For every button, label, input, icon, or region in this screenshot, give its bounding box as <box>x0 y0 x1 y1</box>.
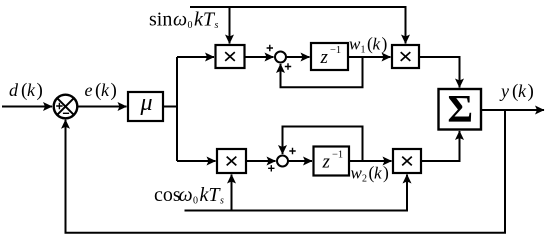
svg-text:μ: μ <box>140 90 153 116</box>
times sign M2 <box>227 157 237 166</box>
wire: summing junction to mu box <box>78 106 127 108</box>
svg-text:cos: cos <box>154 184 181 206</box>
svg-text:): ) <box>111 80 117 101</box>
svg-text:ω: ω <box>173 9 187 31</box>
wire: M2 to adder A2 <box>246 160 276 162</box>
multiplier M3 box <box>392 45 419 68</box>
times sign M3 <box>401 52 411 61</box>
sign plus A1 bottom-right <box>285 63 291 69</box>
svg-text:): ) <box>382 34 388 54</box>
svg-text:0: 0 <box>188 20 193 31</box>
svg-text:1: 1 <box>361 45 366 56</box>
summing junction S1 circle with cross <box>54 95 78 119</box>
sign plus A2 bottom-left <box>268 165 274 171</box>
wire: split to top multiplier M1 <box>177 56 214 58</box>
svg-text:ω: ω <box>179 184 193 206</box>
svg-text:w: w <box>351 164 363 183</box>
wire: sin drop into M1 <box>229 7 231 44</box>
svg-text:kT: kT <box>194 9 216 31</box>
wire: M1 to adder A1 <box>245 56 274 58</box>
sign minus inside S1 <box>63 112 69 114</box>
wire: output feedback to summing junction <box>66 110 506 233</box>
svg-text:s: s <box>220 196 224 207</box>
svg-text:−1: −1 <box>330 45 341 56</box>
svg-text:): ) <box>383 163 389 183</box>
delay z1 box <box>311 43 348 70</box>
svg-text:0: 0 <box>193 196 198 207</box>
mu box <box>128 92 163 121</box>
svg-text:z: z <box>322 152 331 173</box>
svg-text:k: k <box>518 81 527 101</box>
wire: z1 output to M3 <box>348 56 391 58</box>
sigma box <box>439 89 482 130</box>
wire: M3 to sigma <box>419 57 460 88</box>
svg-text:): ) <box>37 80 43 101</box>
svg-text:w: w <box>349 35 361 54</box>
multiplier M2 box <box>217 149 246 173</box>
svg-text:z: z <box>320 47 329 68</box>
multiplier M4 box <box>393 149 421 173</box>
svg-text:y: y <box>499 81 509 101</box>
adder A1 circle <box>275 52 286 63</box>
sign plus A1 top-left <box>267 45 273 51</box>
wire: sin reference line ending into M3 <box>190 7 406 44</box>
wire: z2 output to M4 <box>349 160 392 162</box>
svg-text:k: k <box>373 35 381 54</box>
wire: split to bottom multiplier M2 <box>177 160 216 162</box>
svg-text:d: d <box>9 80 19 100</box>
wire: A2 to z2 <box>288 160 312 162</box>
svg-text:): ) <box>528 81 534 102</box>
svg-text:k: k <box>374 164 382 183</box>
svg-text:k: k <box>101 80 110 100</box>
times sign M1 <box>225 52 235 61</box>
wire: M4 to sigma <box>421 131 460 161</box>
svg-text:kT: kT <box>200 184 222 206</box>
wire: z2 feedback loop to A2 <box>283 127 363 162</box>
wire: branch split vertical <box>176 57 178 161</box>
wire: mu box output to branch split <box>163 106 177 108</box>
sign plus A2 top-right <box>289 148 295 154</box>
adder A2 circle <box>277 156 288 167</box>
wire: cos reference line ending into M4 <box>185 175 408 211</box>
multiplier M1 box <box>216 45 245 68</box>
times sign M4 <box>402 157 412 166</box>
wire: sigma output y(k) <box>481 109 544 111</box>
wire: z1 feedback loop to A1 <box>281 57 363 87</box>
sign plus inside S1 <box>56 103 62 109</box>
wire: A1 to z1 <box>286 56 310 58</box>
svg-text:2: 2 <box>362 174 367 185</box>
svg-text:k: k <box>27 80 36 100</box>
svg-text:Σ: Σ <box>448 88 474 131</box>
svg-text:−1: −1 <box>332 150 343 161</box>
wire: input d(k) arrow into summing junction <box>2 106 52 108</box>
delay z2 box <box>314 147 350 176</box>
svg-text:s: s <box>215 20 219 31</box>
svg-text:sin: sin <box>149 9 172 31</box>
wire: cos rise into M2 <box>231 175 233 211</box>
svg-text:e: e <box>85 80 93 100</box>
